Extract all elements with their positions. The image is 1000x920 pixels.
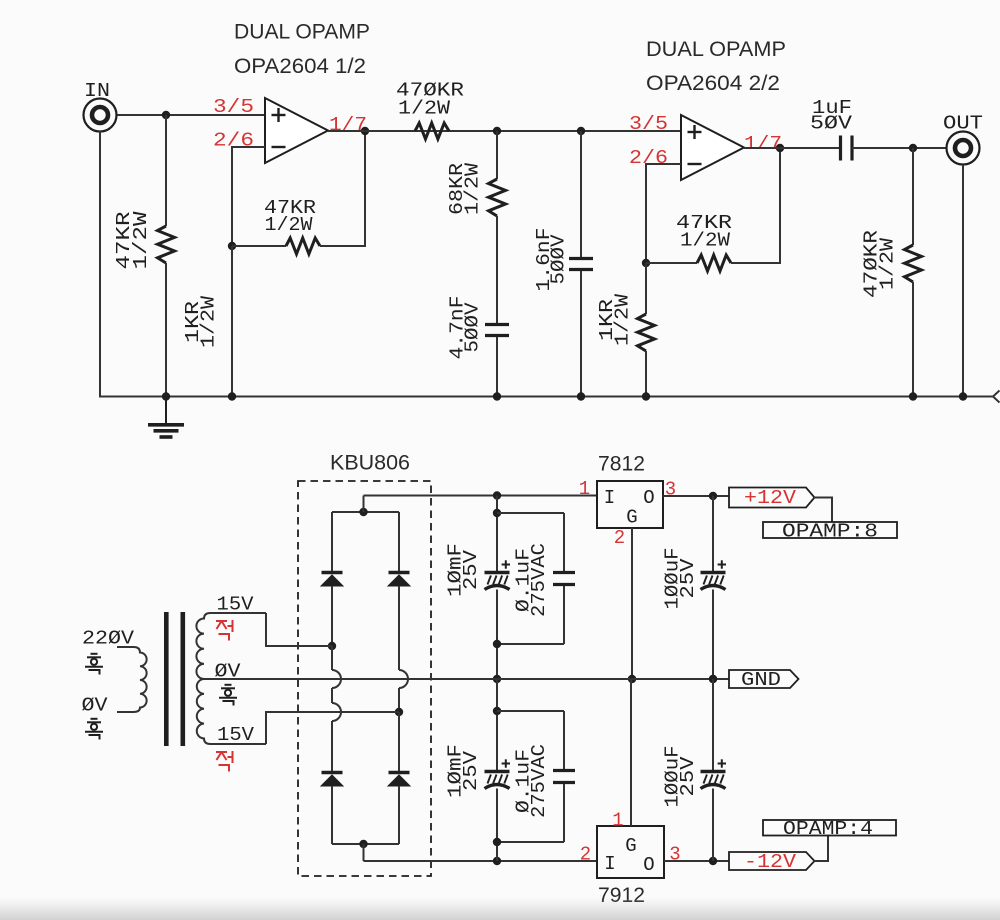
junction negative rail C7 — [493, 857, 501, 865]
wire +12V tag to OPAMP:8 — [814, 498, 832, 523]
wire R5 to C2 — [496, 216, 498, 324]
svg-text:1/7: 1/7 — [744, 133, 782, 155]
resistor R8 470KR wire upper — [912, 148, 914, 245]
svg-text:7812: 7812 — [598, 453, 645, 476]
junction C5 at GND line — [493, 675, 501, 683]
wire C10 to negative rail — [712, 789, 714, 862]
svg-text:5ØØV: 5ØØV — [548, 234, 570, 285]
svg-text:3/5: 3/5 — [629, 113, 668, 135]
junction rail R8 — [909, 392, 917, 400]
power port GND tag — [729, 670, 799, 688]
wire R6 to riser — [731, 262, 781, 264]
svg-text:15V: 15V — [217, 724, 255, 746]
junction node D — [642, 259, 650, 267]
wire C5 to junction — [496, 590, 498, 680]
junction AC2 on right leg — [395, 708, 403, 716]
power port -12V tag — [729, 852, 815, 870]
junction GND C9 — [709, 675, 717, 683]
wire right leg to node AC2 — [398, 688, 400, 712]
svg-text:DUAL OPAMP: DUAL OPAMP — [234, 21, 370, 44]
wire U1B inverting input — [646, 163, 681, 165]
positive rail wire to 7812 — [364, 495, 598, 497]
junction rail C2 — [493, 392, 501, 400]
wire right leg with hop over 0V — [398, 586, 400, 670]
wire IN to op-amp U1 non-inverting input — [116, 114, 266, 116]
svg-text:OPA2604 2/2: OPA2604 2/2 — [646, 72, 780, 95]
op-amp U1B OPA2604 2/2 — [681, 115, 744, 180]
svg-text:3: 3 — [665, 479, 676, 501]
wire 15V top to bridge AC1 — [265, 645, 332, 647]
svg-text:ØV: ØV — [215, 661, 242, 683]
capacitor C9 100uF polarized symbol — [701, 560, 727, 589]
wire secondary 15V top riser — [265, 613, 267, 646]
svg-text:IN: IN — [84, 80, 110, 102]
wire R8 to ground rail — [912, 282, 914, 396]
regulator U4 7912 box — [597, 826, 664, 878]
junction C7/C8 branch top — [493, 707, 501, 715]
label secondary red lead bottom (jeok) — [216, 751, 233, 772]
svg-text:O: O — [643, 487, 654, 509]
svg-text:2/6: 2/6 — [213, 130, 254, 152]
label primary black lead 2 (heuk) — [85, 719, 103, 740]
junction rail R3 — [228, 392, 236, 400]
junction node B — [493, 127, 501, 135]
wire node A to R2 — [232, 245, 286, 247]
resistor R1 wire lower — [165, 263, 167, 396]
svg-text:I: I — [604, 853, 615, 875]
transformer T1 secondary winding upper — [196, 613, 266, 679]
net label box OPAMP:8 — [763, 522, 897, 538]
wire node A down — [231, 146, 233, 246]
resistor R7 1KR zigzag — [638, 314, 655, 351]
svg-text:2/6: 2/6 — [629, 147, 668, 169]
svg-text:25V: 25V — [677, 558, 699, 599]
junction node A — [228, 242, 236, 250]
negative rail wire to 7912 — [364, 860, 598, 862]
connector J2 OUT — [947, 132, 980, 165]
resistor R2 47KR feedback zigzag — [286, 238, 320, 254]
capacitor C10 100uF polarized symbol — [701, 759, 727, 788]
junction rail R7 — [642, 392, 650, 400]
svg-text:1/2W: 1/2W — [612, 293, 634, 346]
resistor R4 470KR zigzag — [415, 123, 449, 139]
wire D1 to node AC1 — [331, 586, 333, 646]
wire left leg to D3 — [331, 721, 333, 771]
label secondary black lead (heuk) — [219, 685, 237, 706]
wire C8 bottom branch — [563, 784, 565, 842]
junction rail C3 — [577, 392, 585, 400]
svg-text:1/2W: 1/2W — [265, 214, 314, 236]
bridge bottom wire — [332, 843, 399, 845]
svg-text:3/5: 3/5 — [213, 96, 254, 118]
label secondary red lead top (jeok) — [216, 620, 233, 641]
wire branch to C6 top — [497, 512, 564, 514]
svg-text:DUAL OPAMP: DUAL OPAMP — [646, 38, 786, 61]
wire J2 down to ground rail — [962, 165, 964, 398]
wire U4 ground pin to GND line — [630, 679, 632, 826]
wire D4 to bridge bottom — [398, 786, 400, 844]
svg-text:22ØV: 22ØV — [82, 628, 135, 650]
capacitor C2 4.7nF plates — [485, 323, 509, 326]
junction C5/C6 branch bottom — [493, 640, 501, 648]
wire right leg to D4 — [398, 712, 400, 771]
capacitor C6 0.1uF plates — [553, 571, 575, 574]
svg-text:1/2W: 1/2W — [462, 162, 484, 215]
svg-text:ØV: ØV — [82, 695, 109, 717]
svg-text:OPA2604 1/2: OPA2604 1/2 — [234, 55, 366, 78]
junction node IN/R1 — [162, 111, 170, 119]
svg-text:25V: 25V — [677, 756, 699, 797]
junction C9 at GND line — [709, 675, 717, 683]
wire left leg with hop over 15V-bottom — [331, 688, 333, 703]
wire left leg with hop over 0V — [331, 646, 333, 670]
junction C5/C6 branch top — [493, 509, 501, 517]
connector J1 IN — [84, 99, 117, 132]
transformer T1 primary winding — [117, 647, 147, 712]
svg-text:OPAMP:8: OPAMP:8 — [782, 521, 878, 543]
diode D3 bottom-left — [321, 773, 343, 787]
svg-text:5ØØV: 5ØØV — [462, 302, 484, 353]
resistor R6 47KR feedback zigzag — [697, 255, 731, 271]
svg-text:25V: 25V — [460, 750, 482, 791]
capacitor C10 100uF wire upper — [712, 679, 714, 772]
svg-text:G: G — [625, 835, 636, 857]
bridge rectifier KBU806 dashed outline — [298, 481, 431, 876]
junction node E — [909, 144, 917, 152]
resistor R7 1KR wire upper — [645, 263, 647, 314]
capacitor C7 10mF wire from GND line — [496, 679, 498, 772]
bridge top wire — [332, 511, 399, 513]
junction bridge + output — [359, 508, 367, 516]
capacitor C4 1uF plates — [839, 136, 842, 161]
ground symbol — [148, 396, 184, 437]
svg-text:15V: 15V — [217, 594, 255, 616]
svg-text:2: 2 — [580, 844, 591, 866]
wire C7 to negative rail — [496, 789, 498, 862]
svg-text:OPAMP:4: OPAMP:4 — [783, 818, 873, 840]
capacitor C3 1.6nF plates — [569, 257, 593, 260]
junction rail R1 — [162, 392, 170, 400]
capacitor C7 10mF polarized symbol — [485, 759, 511, 788]
diode D2 top-right — [398, 512, 400, 571]
transformer T1 secondary winding lower — [197, 679, 266, 744]
wire U3 output to +12V tag — [663, 495, 729, 497]
junction U1A output node — [361, 127, 369, 135]
wire riser feedback to U1A output — [364, 131, 366, 246]
resistor R8 470KR zigzag — [905, 245, 922, 282]
resistor R1 47KR zigzag — [158, 226, 175, 263]
junction rail J2 — [959, 392, 967, 400]
svg-text:1: 1 — [612, 810, 623, 832]
junction -12V node — [709, 857, 717, 865]
junction U3 G at GND line — [628, 675, 636, 683]
wire branch to C8 top — [497, 710, 564, 712]
wire U1B output to C4 — [744, 147, 840, 149]
power port +12V tag — [729, 488, 815, 508]
junction positive rail C5 — [493, 491, 501, 499]
svg-text:O: O — [643, 854, 654, 876]
net label box OPAMP:4 — [763, 820, 896, 836]
capacitor C5 10mF polarized symbol — [485, 560, 511, 589]
op-amp U1A OPA2604 1/2 — [265, 98, 328, 163]
wire R2 to output riser — [320, 245, 366, 247]
wire R7 to ground rail — [645, 351, 647, 396]
ground rail wire — [99, 396, 993, 398]
svg-text:KBU806: KBU806 — [330, 452, 410, 475]
junction AC1 on left leg — [328, 642, 336, 650]
GND net line from transformer — [204, 678, 729, 680]
svg-text:5ØV: 5ØV — [810, 113, 853, 135]
transformer T1 core bars — [164, 612, 169, 746]
svg-text:275VAC: 275VAC — [528, 744, 550, 818]
junction +12V node — [709, 492, 717, 500]
svg-text:-12V: -12V — [744, 851, 797, 873]
svg-text:2: 2 — [614, 527, 625, 549]
svg-text:1/2W: 1/2W — [680, 230, 731, 252]
diode D1 top-left — [331, 512, 333, 571]
ground rail right arrow — [993, 391, 1000, 403]
resistor R5 68KR wire upper — [496, 131, 498, 179]
svg-text:OUT: OUT — [943, 113, 983, 135]
wire D3 to bridge bottom — [331, 786, 333, 844]
svg-text:GND: GND — [741, 669, 781, 691]
svg-text:1/2W: 1/2W — [398, 98, 451, 120]
wire feedback riser to U1B output — [779, 148, 781, 263]
wire C9 to GND line — [712, 590, 714, 680]
diode D4 bottom-right — [388, 773, 410, 787]
wire node D to R6 — [646, 262, 697, 264]
wire riser bridge - to bottom rail — [363, 844, 365, 861]
svg-text:I: I — [604, 487, 615, 509]
wire -12V tag to OPAMP:4 — [814, 836, 828, 862]
wire C6 bottom branch — [563, 586, 565, 644]
junction U1B output node — [776, 144, 784, 152]
resistor R5 68KR zigzag — [489, 179, 506, 216]
capacitor C9 100uF wire upper — [712, 496, 714, 573]
wire J1 down to ground rail — [99, 131, 101, 398]
svg-text:1/2W: 1/2W — [877, 237, 899, 290]
wire C2 to ground rail — [496, 337, 498, 396]
wire U1A output to U2A input — [328, 130, 681, 132]
wire C4 to OUT — [852, 147, 947, 149]
label primary black lead (heuk) — [85, 654, 103, 675]
resistor R1 47KR vertical wire upper — [165, 115, 167, 226]
svg-text:1: 1 — [579, 478, 590, 500]
wire 1KR node A to ground rail — [231, 246, 233, 396]
svg-text:25V: 25V — [460, 549, 482, 590]
junction C7/C8 branch bottom — [493, 838, 501, 846]
junction bridge - output — [359, 840, 367, 848]
capacitor C8 0.1uF plates — [553, 769, 575, 772]
wire 15V bottom to bridge AC2 — [265, 711, 399, 713]
capacitor C5 10mF wire from + rail — [496, 496, 498, 574]
capacitor C3 1.6nF wire upper — [580, 131, 582, 258]
svg-text:G: G — [626, 507, 637, 529]
wire secondary 15V bottom riser — [265, 712, 267, 744]
wire U4 output to -12V tag — [664, 860, 729, 862]
wire U3 ground pin to GND line — [631, 528, 633, 679]
svg-text:+12V: +12V — [744, 487, 797, 509]
svg-text:1/2W: 1/2W — [130, 211, 152, 270]
wire C3 to ground rail — [580, 271, 582, 396]
wire U1A inverting input — [232, 146, 265, 148]
svg-text:1/2W: 1/2W — [198, 295, 220, 348]
svg-text:3: 3 — [669, 844, 680, 866]
regulator U3 7812 box — [597, 481, 663, 528]
wire riser bridge + to top rail — [363, 496, 365, 513]
svg-text:275VAC: 275VAC — [528, 543, 550, 617]
wire node D down — [645, 163, 647, 263]
junction node C — [577, 127, 585, 135]
